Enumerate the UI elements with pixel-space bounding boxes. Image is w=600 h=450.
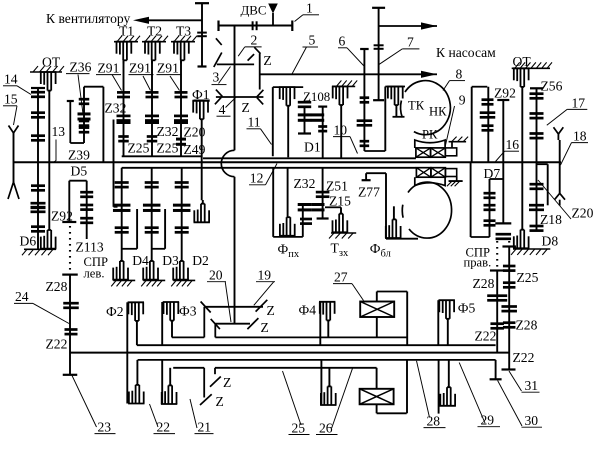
svg-text:Z: Z — [263, 53, 271, 68]
svg-text:Z32: Z32 — [157, 124, 179, 139]
svg-text:Z36: Z36 — [70, 60, 92, 75]
svg-text:Z91: Z91 — [157, 60, 179, 75]
svg-text:20: 20 — [209, 267, 223, 282]
svg-text:Z22: Z22 — [475, 329, 497, 344]
svg-text:18: 18 — [573, 128, 587, 143]
svg-text:Z28: Z28 — [46, 279, 68, 294]
svg-text:Z32: Z32 — [294, 176, 316, 191]
svg-text:9: 9 — [459, 93, 466, 108]
svg-text:Ф3: Ф3 — [179, 303, 197, 318]
svg-text:Z28: Z28 — [473, 276, 495, 291]
svg-text:Z22: Z22 — [513, 350, 535, 365]
svg-text:Z28: Z28 — [516, 317, 538, 332]
svg-text:ОТ: ОТ — [42, 55, 61, 70]
svg-text:3: 3 — [213, 70, 220, 85]
svg-text:10: 10 — [334, 123, 348, 138]
svg-text:Z32: Z32 — [105, 101, 127, 116]
svg-text:К вентилятору: К вентилятору — [46, 11, 131, 26]
svg-text:15: 15 — [4, 91, 18, 106]
svg-text:27: 27 — [334, 269, 348, 284]
svg-text:28: 28 — [427, 413, 441, 428]
svg-text:13: 13 — [52, 124, 66, 139]
svg-text:Z39: Z39 — [68, 148, 90, 163]
svg-text:Z: Z — [261, 320, 269, 335]
svg-text:22: 22 — [157, 419, 171, 434]
svg-text:Z92: Z92 — [494, 85, 516, 100]
svg-text:Ф5: Ф5 — [458, 300, 476, 315]
svg-text:17: 17 — [572, 95, 586, 110]
svg-text:Z15: Z15 — [329, 193, 351, 208]
svg-text:Z18: Z18 — [540, 212, 562, 227]
svg-text:D1: D1 — [304, 139, 321, 154]
svg-text:4: 4 — [219, 102, 226, 117]
svg-text:12: 12 — [250, 171, 264, 186]
svg-text:Z22: Z22 — [46, 337, 68, 352]
svg-text:21: 21 — [198, 419, 212, 434]
svg-text:29: 29 — [481, 413, 495, 428]
svg-text:Z25: Z25 — [128, 141, 150, 156]
svg-text:Z: Z — [216, 394, 224, 409]
svg-text:D2: D2 — [192, 253, 209, 268]
svg-text:D8: D8 — [542, 233, 559, 248]
svg-text:24: 24 — [15, 289, 29, 304]
svg-text:19: 19 — [258, 267, 272, 282]
svg-text:РК: РК — [422, 128, 438, 142]
svg-text:25: 25 — [292, 420, 306, 435]
svg-text:К насосам: К насосам — [436, 45, 496, 60]
svg-text:лев.: лев. — [84, 267, 105, 281]
svg-text:16: 16 — [506, 137, 520, 152]
svg-text:6: 6 — [339, 33, 346, 48]
svg-text:5: 5 — [309, 33, 316, 48]
svg-text:Z56: Z56 — [541, 79, 563, 94]
svg-text:11: 11 — [248, 115, 261, 130]
svg-text:Z: Z — [267, 303, 275, 318]
svg-text:Z91: Z91 — [129, 60, 151, 75]
svg-text:2: 2 — [251, 33, 258, 48]
svg-text:D3: D3 — [162, 253, 179, 268]
svg-text:31: 31 — [525, 378, 539, 393]
svg-text:D5: D5 — [71, 164, 88, 179]
svg-text:НК: НК — [429, 105, 447, 119]
svg-text:30: 30 — [525, 413, 539, 428]
svg-text:Ф4: Ф4 — [299, 302, 317, 317]
svg-text:D6: D6 — [20, 234, 37, 249]
svg-text:Z25: Z25 — [517, 270, 539, 285]
svg-text:Z77: Z77 — [358, 184, 380, 199]
svg-text:1: 1 — [306, 1, 313, 16]
svg-text:D4: D4 — [132, 253, 149, 268]
svg-text:Ф2: Ф2 — [106, 304, 124, 319]
svg-text:Z: Z — [223, 375, 231, 390]
svg-text:Z20: Z20 — [572, 206, 594, 221]
svg-text:8: 8 — [456, 66, 463, 81]
svg-text:Z: Z — [242, 100, 250, 115]
svg-text:Z91: Z91 — [98, 60, 120, 75]
svg-text:прав.: прав. — [464, 255, 492, 269]
svg-text:Z25: Z25 — [157, 141, 179, 156]
svg-text:ДВС: ДВС — [241, 4, 267, 18]
svg-text:ТК: ТК — [408, 99, 425, 113]
svg-text:23: 23 — [98, 419, 112, 434]
svg-text:7: 7 — [407, 35, 414, 50]
svg-text:26: 26 — [319, 420, 333, 435]
svg-text:14: 14 — [4, 71, 18, 86]
svg-text:Z113: Z113 — [76, 240, 104, 255]
